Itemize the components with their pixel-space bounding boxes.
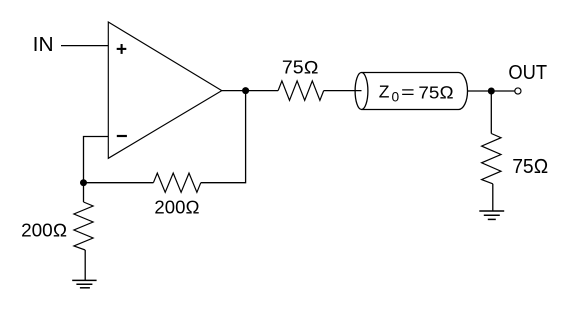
resistor 200 ohm feedback [153,173,200,192]
wire IN input [61,45,108,47]
resistor 75 ohm load [482,134,501,184]
svg-text:200Ω: 200Ω [21,219,67,240]
wire junction to feedback resistor [84,182,154,184]
op-amp U1 [108,22,222,158]
wire OUT node down to load resistor [490,91,492,134]
svg-text:200Ω: 200Ω [154,197,199,218]
wire feedback resistor to output node [201,91,246,183]
svg-text:Z: Z [379,82,390,102]
wire op-amp output to node [222,90,278,92]
ground at gain resistor [72,280,96,287]
pin + (non-inverting input) [117,44,127,54]
resistor 75 ohm series [278,81,324,100]
wire junction to gain resistor [83,183,85,202]
wire gain resistor to ground [84,250,86,281]
svg-text:75Ω: 75Ω [418,83,453,103]
svg-text:75Ω: 75Ω [282,57,319,77]
svg-text:0: 0 [392,89,400,104]
wire cable to OUT [468,90,515,92]
svg-text:IN: IN [33,34,54,56]
wire resistor to cable [324,90,362,92]
resistor 200 ohm gain [74,202,93,250]
node junction at op-amp output [242,87,249,94]
ground at load [479,211,504,219]
coax cable left end ellipse [355,73,368,110]
terminal OUT open circle [515,88,521,94]
node junction feedback [80,179,87,186]
coax cable body [362,73,468,110]
pin - (inverting input) [117,135,127,137]
svg-text:OUT: OUT [508,62,547,84]
wire load resistor to ground [492,184,494,211]
svg-text:=: = [401,82,415,102]
svg-text:75Ω: 75Ω [512,156,548,178]
wire inverting input to feedback junction [84,137,109,183]
node junction at OUT [488,88,495,95]
